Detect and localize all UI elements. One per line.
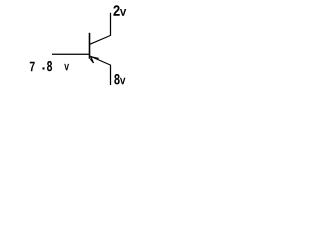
transistor Q1 (PNP) schematic	[0, 0, 215, 104]
label 8v: glyph 8	[114, 74, 119, 84]
label 8v: glyph v	[120, 78, 125, 85]
transistor Q1 emitter arrowhead (points to base, PNP)	[90, 57, 98, 63]
label 7.8 v: glyph v	[64, 64, 69, 70]
label 2v: glyph 2	[113, 5, 119, 15]
transistor Q1 collector diagonal	[90, 35, 111, 44]
wire base lead	[52, 53, 90, 55]
wire collector lead	[110, 13, 112, 36]
label 2v: glyph v	[120, 9, 126, 16]
wire emitter lead	[110, 65, 112, 85]
label 7.8 v: glyph 7	[30, 62, 35, 71]
label 7.8 v: glyph .	[43, 67, 45, 69]
transistor Q1 emitter diagonal	[90, 56, 111, 65]
transistor Q1 base bar	[89, 33, 91, 59]
label 7.8 v: glyph 8	[47, 61, 52, 71]
